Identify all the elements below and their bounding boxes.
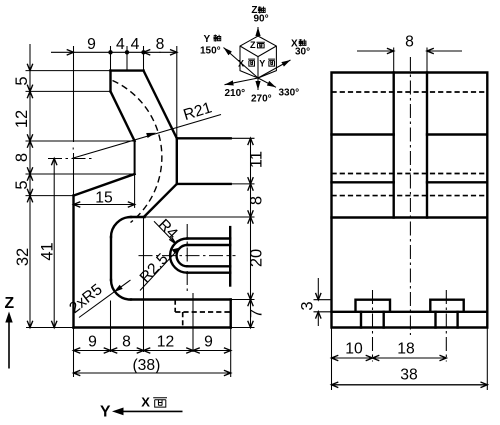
dim 8 arrows (144, 51, 161, 53)
extension line x=393.7 (393, 48, 395, 73)
outline rect (332, 73, 488, 328)
left foot centerline (372, 290, 374, 362)
side edge y=135.5 left (332, 133, 394, 135)
svg-text:5: 5 (13, 180, 31, 189)
part outline: lower-left slant (line B) (74, 174, 135, 196)
svg-text:9: 9 (204, 334, 213, 351)
svg-text:12: 12 (157, 334, 174, 351)
part outline: left slant of column (line A) (111, 91, 135, 141)
extension line x=193 below (192, 293, 194, 352)
svg-text:8: 8 (13, 153, 31, 162)
extension line y=91.4 (26, 90, 111, 92)
extension line x=127 (126, 46, 128, 71)
span 41 (53, 159, 55, 328)
fillet R5 upper (111, 217, 131, 237)
R21 center line (dash-dot) (48, 158, 92, 160)
Z axis arrowhead (5, 312, 12, 323)
svg-text:150°: 150° (200, 46, 221, 57)
Y axis arrowhead (bottom) (112, 408, 124, 416)
svg-text:5: 5 (13, 76, 31, 85)
cube inner edges (240, 46, 276, 78)
slot vertical centerline (186, 224, 188, 294)
svg-text:30°: 30° (295, 47, 310, 58)
svg-text:330°: 330° (279, 88, 300, 99)
cube hexagon (240, 36, 276, 78)
span 32 (29, 196, 31, 328)
extension line x=331.5 below (331, 328, 333, 391)
R21 leader (73, 115, 222, 159)
svg-text:8: 8 (248, 196, 266, 205)
slot outer arc R4 (170, 239, 187, 273)
part outline: bottom edge (74, 326, 231, 328)
2xR5 leader (79, 280, 131, 318)
hidden line y=195.6 (332, 195, 488, 197)
svg-text:9: 9 (87, 36, 96, 53)
svg-text:20: 20 (248, 249, 266, 267)
inner piece left vertical edge (110, 237, 112, 280)
svg-text:3: 3 (299, 301, 317, 310)
extension line x=110.5 below (110, 301, 112, 353)
extension line y=195.6 (26, 195, 74, 197)
cube axis arrow 270deg (257, 78, 259, 90)
span 5 (29, 71, 31, 92)
Z axis arrow shaft (8, 321, 10, 369)
extension line x=230.7 below (230, 328, 232, 378)
cube axis arrow 30deg (X) (258, 60, 291, 78)
span 8 (29, 141, 31, 174)
span 12 (29, 91, 31, 141)
right foot wide tab (430, 300, 463, 312)
side edge y=183.5 right (427, 181, 487, 183)
slot right edge (426, 73, 428, 218)
extension line x=73.5 (73, 46, 75, 142)
svg-text:10: 10 (345, 341, 363, 358)
slot right end vertical (229, 227, 231, 285)
dim line 9/4/4 segment (74, 51, 144, 53)
foot edges y=311.8 full (332, 311, 488, 313)
main vertical centerline (409, 57, 411, 335)
slot inner arc R2.5 (177, 245, 188, 266)
svg-text:4: 4 (116, 36, 125, 53)
svg-text:12: 12 (13, 110, 31, 128)
extension line x=143.5 below (143, 218, 145, 352)
R4 leader (154, 221, 176, 244)
extension line y=141 (26, 140, 135, 142)
cube axis arrow 210deg (225, 78, 259, 85)
extension line y=174 (26, 173, 135, 175)
side edge y=183.5 left (332, 181, 394, 183)
extension line x=427 (426, 48, 428, 73)
slot inner top line (187, 244, 230, 246)
slot inner bottom line (187, 265, 230, 267)
slot left edge (393, 73, 395, 218)
side edge y=135.5 right (427, 133, 487, 135)
cube axis arrow 150deg (Y) (224, 48, 259, 79)
part outline: lower-right vertical edge (229, 300, 231, 328)
svg-text:18: 18 (397, 341, 415, 358)
hidden edge horizontal (175, 311, 229, 313)
span 5b (29, 174, 31, 196)
chain dots (108, 50, 112, 54)
right foot centerline (445, 290, 447, 362)
slot outer bottom line (187, 272, 230, 274)
svg-text:Y: Y (100, 404, 111, 421)
Y axis arrow shaft (bottom) (122, 410, 183, 412)
extension line x=73.5 lower part (73, 153, 75, 196)
extension line x=487.3 below (486, 328, 488, 391)
svg-text:4: 4 (131, 36, 140, 53)
svg-text:8: 8 (122, 334, 131, 351)
hidden edge vertical lower (182, 312, 184, 328)
svg-text:270°: 270° (251, 93, 272, 104)
45deg slant from arm corner down to notch face (144, 184, 177, 217)
svg-text:9: 9 (88, 334, 97, 351)
svg-text:Y: Y (259, 59, 265, 69)
hidden line y=92 (332, 91, 488, 93)
svg-text:X: X (141, 395, 150, 410)
svg-text:Z: Z (250, 40, 256, 50)
svg-text:90°: 90° (254, 14, 269, 25)
notch top face edge (131, 216, 145, 218)
svg-text:X: X (238, 59, 244, 69)
center-cross dot on extension x=73.5 (72, 148, 74, 150)
spans (250, 138, 252, 184)
svg-text:32: 32 (14, 248, 32, 266)
slot outer top line (187, 237, 230, 239)
extension line x=176.8 (176, 46, 178, 138)
left foot wide tab (356, 300, 391, 312)
svg-text:8: 8 (405, 34, 414, 51)
dim line with outside arrow tail at left (51, 51, 74, 53)
part outline: step edge above bottom-right strip (131, 298, 231, 300)
svg-text:210°: 210° (225, 88, 246, 99)
arm left vertical edge (176, 138, 178, 184)
extension line y=327.5 bottom (26, 327, 74, 329)
svg-text:7: 7 (248, 309, 266, 318)
dim line outside tail top (29, 44, 31, 71)
extension line x=143.5 (143, 46, 145, 71)
slot horizontal centerline (139, 255, 236, 257)
part outline: top edge (111, 69, 144, 71)
right foot narrow tab (436, 312, 458, 328)
svg-text:Z: Z (5, 295, 15, 312)
extension line x=73.5 below (73, 328, 75, 378)
extensions (231, 137, 255, 139)
arm bottom edge (177, 183, 231, 185)
dim 3 left (314, 299, 332, 301)
svg-text:Y: Y (204, 34, 211, 45)
hidden edge vertical upper (174, 300, 176, 313)
svg-text:41: 41 (38, 242, 56, 260)
dim line (38) (74, 372, 231, 374)
extension line y=70.6 (26, 70, 111, 72)
left foot narrow tab (361, 312, 384, 328)
svg-text:(38): (38) (132, 357, 160, 374)
part outline: mid vertical edge below line A (134, 141, 136, 174)
R21 dashed arc (113, 81, 162, 223)
extension line x=110.5 (110, 46, 112, 71)
svg-text:38: 38 (400, 367, 418, 384)
cube axis arrow 90deg (Z) (257, 27, 259, 36)
part outline: right slant of column (line C) (144, 71, 177, 139)
svg-text:8: 8 (156, 36, 165, 53)
part outline: upper-left vertical stub (109, 71, 111, 92)
chain 9 8 12 9 at y=350.5 (74, 350, 111, 352)
svg-text:11: 11 (248, 151, 266, 168)
fillet R5 lower (111, 280, 131, 300)
full edge y=217.5 (332, 216, 488, 218)
hidden line y=175.2 (332, 173, 488, 175)
part outline: left edge (72, 196, 74, 328)
R2.5 leader (140, 248, 180, 291)
cube axis arrow 330deg (258, 78, 276, 87)
svg-text:15: 15 (95, 190, 113, 207)
arm top edge (177, 137, 231, 139)
